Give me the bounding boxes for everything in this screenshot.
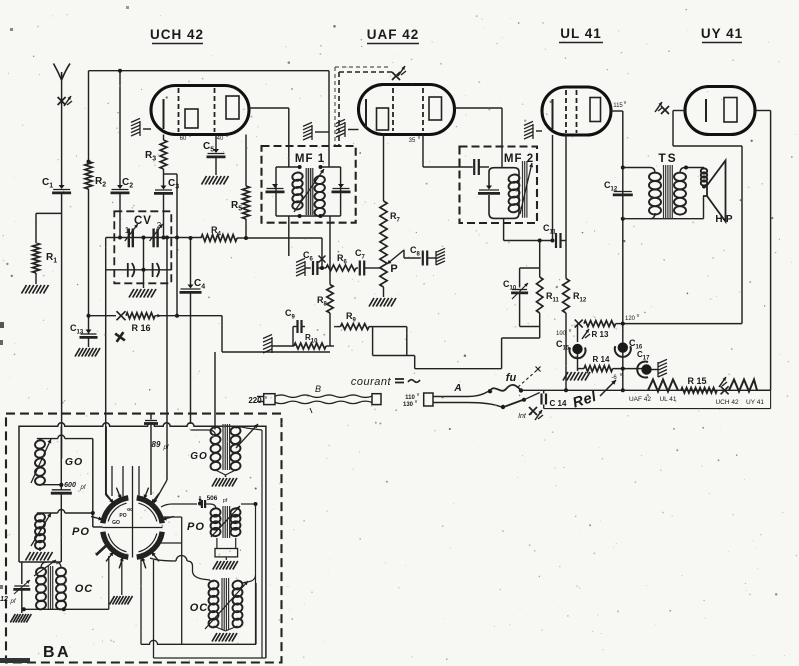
svg-text:oc: oc bbox=[127, 507, 133, 513]
svg-text:GO: GO bbox=[190, 451, 208, 462]
svg-text:UY 41: UY 41 bbox=[701, 26, 743, 41]
svg-text:courant: courant bbox=[351, 376, 392, 388]
svg-text:120: 120 bbox=[625, 316, 636, 322]
svg-text:506: 506 bbox=[207, 495, 218, 502]
svg-text:R 13: R 13 bbox=[592, 330, 609, 339]
svg-text:C 14: C 14 bbox=[550, 399, 567, 408]
svg-text:A: A bbox=[453, 383, 461, 394]
svg-text:35: 35 bbox=[409, 138, 416, 144]
svg-text:UCH 42: UCH 42 bbox=[150, 27, 204, 42]
svg-text:130: 130 bbox=[403, 402, 414, 408]
svg-text:-6: -6 bbox=[611, 375, 617, 381]
svg-text:Int: Int bbox=[518, 413, 527, 420]
svg-text:PO: PO bbox=[119, 513, 126, 519]
svg-text:H-P: H-P bbox=[715, 214, 733, 225]
svg-text:P: P bbox=[390, 263, 397, 275]
svg-text:UY 41: UY 41 bbox=[746, 399, 764, 406]
svg-text:600: 600 bbox=[64, 482, 76, 489]
svg-text:MF 1: MF 1 bbox=[295, 153, 325, 165]
svg-text:UL 41: UL 41 bbox=[659, 396, 676, 403]
svg-text:115: 115 bbox=[613, 103, 623, 109]
svg-text:R 14: R 14 bbox=[593, 355, 610, 364]
svg-text:BA: BA bbox=[43, 644, 71, 661]
svg-text:PO: PO bbox=[72, 526, 90, 538]
svg-text:40: 40 bbox=[217, 136, 224, 142]
svg-text:R 16: R 16 bbox=[131, 323, 150, 333]
svg-text:fu: fu bbox=[506, 372, 517, 384]
svg-text:89: 89 bbox=[152, 440, 161, 449]
svg-text:GO: GO bbox=[65, 456, 83, 468]
svg-text:PO: PO bbox=[187, 521, 205, 533]
svg-text:UAF 42: UAF 42 bbox=[367, 27, 420, 42]
svg-text:12: 12 bbox=[0, 596, 8, 603]
svg-text:B: B bbox=[315, 384, 321, 394]
svg-text:UCH 42: UCH 42 bbox=[715, 399, 739, 406]
svg-text:220: 220 bbox=[248, 396, 262, 405]
svg-text:60: 60 bbox=[180, 136, 187, 142]
svg-text:GO: GO bbox=[112, 520, 120, 526]
svg-text:TS: TS bbox=[658, 151, 677, 165]
svg-text:OC: OC bbox=[190, 602, 209, 614]
svg-text:UAF 42: UAF 42 bbox=[629, 396, 651, 403]
svg-text:UL 41: UL 41 bbox=[560, 26, 602, 41]
svg-text:MF 2: MF 2 bbox=[504, 153, 534, 165]
svg-text:R 15: R 15 bbox=[687, 376, 706, 386]
svg-text:pf: pf bbox=[223, 498, 228, 504]
svg-text:OC: OC bbox=[75, 583, 94, 595]
